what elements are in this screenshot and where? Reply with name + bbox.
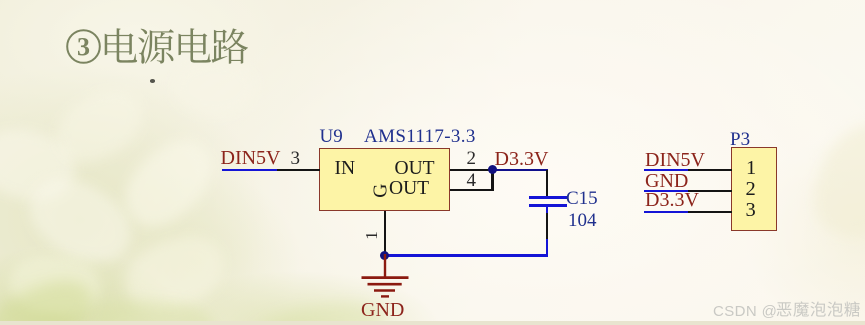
U9 pin 3 lead bbox=[277, 169, 320, 171]
capacitor C15 plates bbox=[529, 196, 567, 199]
U9 pin name OUT (pin 2) bbox=[395, 159, 435, 179]
junction node GND bbox=[380, 251, 389, 260]
wire pin4 riser bbox=[491, 170, 493, 191]
wire D3.3V to capacitor (navy) bbox=[493, 169, 549, 171]
P3 pin 3 number bbox=[746, 200, 756, 221]
capacitor C15 bottom lead bbox=[546, 207, 548, 214]
net label D3.3V (P3) bbox=[645, 190, 699, 210]
U9 value label AMS1117-3.3 bbox=[364, 127, 476, 146]
wire net DIN5V at P3 (blue) bbox=[644, 169, 688, 171]
U9 pin 4 lead bbox=[450, 189, 494, 191]
U9 pin 1 lead bbox=[384, 211, 386, 252]
capacitor C15 designator bbox=[566, 189, 598, 208]
wire net GND at P3 (blue) bbox=[644, 190, 688, 192]
U9 pin name OUT (pin 4) bbox=[389, 179, 429, 199]
wire net D3.3V at P3 (blue) bbox=[644, 211, 688, 213]
P3 pin 1 number bbox=[746, 158, 756, 179]
voltage regulator U9 AMS1117-3.3 body bbox=[319, 148, 450, 211]
capacitor C15 top lead bbox=[546, 170, 548, 197]
watermark bbox=[713, 304, 777, 319]
U9 pin name IN bbox=[335, 159, 356, 179]
wire capacitor to bottom rail bbox=[546, 239, 548, 256]
net label GND (P3) bbox=[645, 171, 688, 191]
title text 电源电路 bbox=[0, 0, 300, 100]
P3 pin 1 lead bbox=[688, 169, 732, 171]
net label DIN5V bbox=[221, 148, 281, 168]
U9 pin name G (rotated GND pin) bbox=[371, 184, 391, 198]
U9 pin 3 number bbox=[291, 149, 301, 168]
U9 designator label bbox=[320, 127, 343, 146]
net label DIN5V (P3) bbox=[645, 150, 705, 170]
U9 pin 1 number (rotated) bbox=[363, 231, 380, 240]
wire bottom rail (blue) bbox=[384, 254, 548, 256]
junction node D3.3V bbox=[488, 165, 497, 174]
P3 pin 3 lead bbox=[688, 211, 732, 213]
connector P3 designator bbox=[730, 130, 750, 149]
U9 pin 2 lead bbox=[450, 169, 494, 171]
U9 pin 4 number bbox=[467, 171, 477, 190]
wire net DIN5V (blue) bbox=[222, 169, 278, 171]
title circled 3 bbox=[63, 26, 253, 68]
ground net label GND bbox=[361, 300, 404, 320]
P3 pin 2 lead bbox=[688, 190, 732, 192]
P3 pin 2 number bbox=[746, 179, 756, 200]
net label D3.3V bbox=[495, 149, 549, 169]
U9 pin 2 number bbox=[467, 149, 477, 168]
ground symbol bbox=[358, 254, 412, 300]
capacitor C15 value 104 bbox=[568, 211, 597, 230]
connector P3 body bbox=[731, 147, 777, 231]
